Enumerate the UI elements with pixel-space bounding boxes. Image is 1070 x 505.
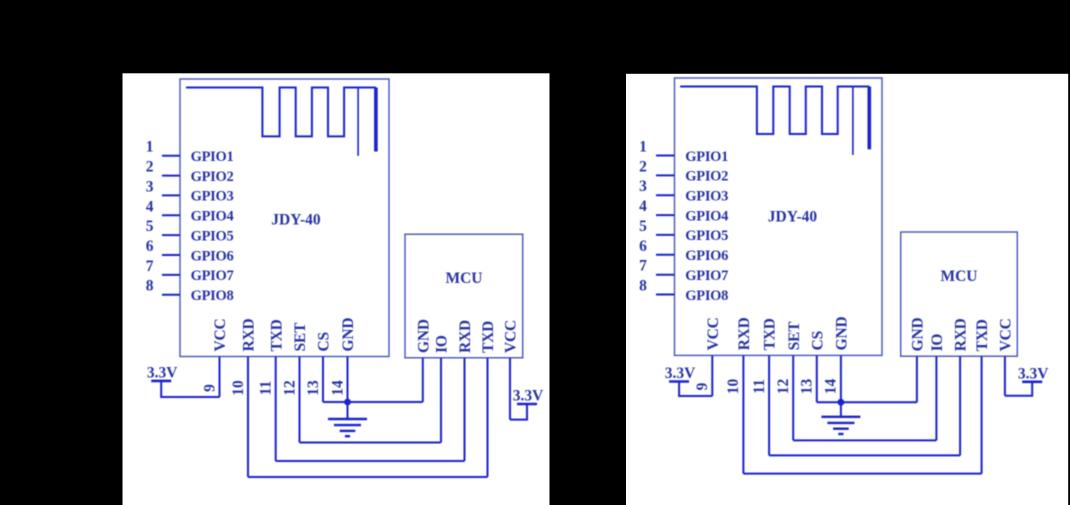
svg-text:8: 8 (146, 278, 154, 295)
ground symbol (821, 402, 860, 434)
svg-text:GPIO2: GPIO2 (685, 169, 728, 185)
svg-text:7: 7 (639, 258, 647, 275)
svg-text:GPIO6: GPIO6 (685, 248, 728, 264)
pin 14 (GND) wire of U3 (840, 355, 842, 402)
svg-text:GPIO8: GPIO8 (191, 288, 234, 304)
wire CS pin13 to GND node (323, 401, 348, 403)
svg-text:GPIO3: GPIO3 (191, 189, 234, 205)
svg-text:VCC: VCC (503, 320, 520, 353)
svg-text:3: 3 (146, 178, 154, 195)
svg-text:13: 13 (799, 379, 816, 395)
svg-text:GPIO3: GPIO3 (685, 189, 728, 205)
svg-text:GPIO5: GPIO5 (685, 228, 728, 244)
svg-text:JDY-40: JDY-40 (768, 209, 818, 226)
svg-text:2: 2 (639, 158, 647, 175)
svg-text:14: 14 (823, 379, 840, 395)
pin 2 stub of U3 (656, 174, 675, 176)
MCU pin VCC wire (1004, 356, 1006, 396)
wire GND node to MCU GND (841, 401, 917, 403)
svg-text:RXD: RXD (736, 317, 753, 350)
svg-text:CS: CS (809, 331, 826, 350)
wire SET to MCU IO (300, 442, 442, 444)
svg-text:1: 1 (639, 139, 647, 156)
wire MCU VCC to 3.3V rail (510, 404, 527, 420)
svg-text:SET: SET (786, 321, 803, 351)
pin 5 stub of U1 (162, 234, 180, 236)
svg-text:SET: SET (292, 322, 309, 352)
svg-text:4: 4 (639, 198, 647, 215)
svg-text:VCC: VCC (705, 317, 722, 350)
svg-text:GPIO8: GPIO8 (685, 288, 728, 304)
pin 6 stub of U3 (656, 254, 675, 256)
svg-text:6: 6 (146, 238, 154, 255)
svg-text:12: 12 (775, 379, 792, 395)
pin 11 (TXD) wire of U3 (768, 355, 770, 455)
wire VCC pin9 to 3.3V rail (161, 381, 219, 397)
junction node GND (344, 399, 351, 406)
wire MCU VCC to 3.3V rail (1005, 382, 1032, 396)
wire VCC pin9 to 3.3V rail (679, 382, 712, 397)
svg-text:GPIO4: GPIO4 (191, 209, 234, 225)
svg-text:RXD: RXD (457, 320, 474, 353)
svg-text:3.3V: 3.3V (147, 364, 178, 381)
svg-text:CS: CS (316, 332, 333, 351)
3.3V power bar (left) (151, 380, 171, 383)
pin 10 (RXD) wire of U3 (742, 355, 744, 473)
pin 4 stub of U1 (162, 214, 180, 216)
svg-text:1: 1 (146, 139, 154, 156)
wire SET to MCU IO (793, 439, 936, 441)
svg-text:13: 13 (305, 380, 322, 396)
svg-text:3: 3 (639, 178, 647, 195)
svg-text:14: 14 (329, 380, 346, 396)
svg-text:MCU: MCU (940, 268, 977, 285)
antenna thick feed stub (867, 87, 871, 150)
MCU U2 body (405, 234, 523, 358)
pin 9 (VCC) wire of U1 (219, 357, 221, 398)
svg-text:10: 10 (725, 379, 742, 395)
svg-text:9: 9 (201, 384, 218, 392)
svg-text:RXD: RXD (953, 318, 970, 351)
svg-text:GPIO7: GPIO7 (685, 268, 728, 284)
svg-text:3.3V: 3.3V (1018, 365, 1049, 382)
pin 11 (TXD) wire of U1 (275, 357, 277, 462)
svg-text:3.3V: 3.3V (513, 388, 544, 405)
svg-text:TXD: TXD (974, 319, 991, 351)
MCU pin RXD wire (464, 358, 466, 461)
antenna thin stub (852, 87, 854, 155)
pin 12 (SET) wire of U1 (299, 357, 301, 443)
pin 14 (GND) wire of U1 (347, 357, 349, 403)
svg-text:9: 9 (694, 382, 711, 390)
wire CS pin13 to GND node (817, 401, 841, 403)
wire RXD to MCU TXD (743, 473, 981, 475)
pin 13 (CS) wire of U1 (322, 357, 324, 403)
junction node GND (838, 399, 845, 406)
pin 13 (CS) wire of U3 (816, 355, 818, 402)
pin 10 (RXD) wire of U1 (247, 357, 249, 478)
pin 9 (VCC) wire of U3 (711, 355, 713, 396)
svg-text:GND: GND (415, 319, 432, 353)
pin 2 stub of U1 (162, 175, 180, 177)
MCU pin RXD wire (959, 356, 961, 455)
svg-text:GND: GND (834, 317, 851, 351)
svg-text:GND: GND (340, 318, 357, 352)
MCU pin IO wire (440, 358, 442, 443)
antenna meander of U1 (186, 88, 376, 137)
svg-text:GPIO2: GPIO2 (191, 169, 234, 185)
wire TXD to MCU RXD (276, 460, 465, 462)
MCU pin GND wire (422, 358, 424, 402)
ground symbol (328, 402, 367, 436)
pin 7 stub of U1 (162, 274, 180, 276)
svg-text:12: 12 (281, 380, 298, 396)
svg-text:2: 2 (146, 159, 154, 176)
pin 6 stub of U1 (162, 254, 180, 256)
MCU pin GND wire (916, 356, 918, 402)
svg-text:GND: GND (910, 318, 927, 352)
3.3V power bar (right) (517, 403, 537, 406)
svg-text:6: 6 (639, 238, 647, 255)
antenna thin stub (357, 88, 359, 156)
svg-text:TXD: TXD (480, 321, 497, 353)
wire GND node to MCU GND (348, 401, 423, 403)
svg-text:MCU: MCU (445, 270, 482, 287)
MCU pin TXD wire (487, 358, 489, 477)
antenna thick feed stub (374, 88, 378, 152)
svg-text:GPIO6: GPIO6 (191, 248, 234, 264)
JDY-40 module U3 body (675, 78, 883, 355)
svg-text:TXD: TXD (762, 318, 779, 350)
pin 5 stub of U3 (656, 234, 675, 236)
svg-text:IO: IO (434, 335, 451, 353)
svg-text:GPIO1: GPIO1 (191, 149, 234, 165)
pin 1 stub of U1 (162, 155, 180, 157)
MCU pin IO wire (935, 356, 937, 440)
svg-text:3.3V: 3.3V (665, 365, 696, 382)
pin 8 stub of U3 (656, 294, 675, 296)
pin 8 stub of U1 (162, 294, 180, 296)
svg-text:GPIO7: GPIO7 (191, 268, 234, 284)
svg-text:5: 5 (146, 218, 154, 235)
3.3V power bar (right) (1022, 380, 1042, 383)
svg-text:7: 7 (146, 258, 154, 275)
wire TXD to MCU RXD (769, 454, 960, 456)
pin 4 stub of U3 (656, 214, 675, 216)
MCU pin VCC wire (509, 358, 511, 420)
svg-text:JDY-40: JDY-40 (271, 212, 321, 229)
pin 1 stub of U3 (656, 155, 675, 157)
svg-text:RXD: RXD (241, 319, 258, 352)
svg-text:TXD: TXD (268, 319, 285, 351)
svg-text:11: 11 (258, 381, 275, 396)
pin 3 stub of U3 (656, 194, 675, 196)
svg-text:GPIO1: GPIO1 (685, 149, 728, 165)
3.3V power bar (left) (669, 380, 689, 383)
antenna meander of U3 (680, 87, 869, 135)
svg-text:GPIO5: GPIO5 (191, 228, 234, 244)
JDY-40 module U1 body (180, 79, 389, 357)
pin 3 stub of U1 (162, 194, 180, 196)
svg-text:VCC: VCC (998, 318, 1015, 351)
svg-text:GPIO4: GPIO4 (685, 208, 728, 224)
svg-text:VCC: VCC (212, 319, 229, 352)
MCU pin TXD wire (981, 356, 983, 473)
svg-text:IO: IO (929, 334, 946, 352)
svg-text:11: 11 (751, 379, 768, 394)
MCU U4 body (901, 232, 1018, 356)
svg-text:5: 5 (639, 218, 647, 235)
svg-text:8: 8 (639, 278, 647, 295)
svg-text:10: 10 (230, 380, 247, 396)
right white schematic panel (626, 74, 1068, 505)
pin 12 (SET) wire of U3 (792, 355, 794, 440)
left white schematic panel (123, 73, 550, 505)
svg-text:4: 4 (146, 198, 154, 215)
pin 7 stub of U3 (656, 274, 675, 276)
wire RXD to MCU TXD (248, 476, 488, 478)
